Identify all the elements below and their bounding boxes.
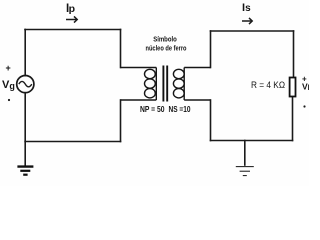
wire left vertical (top corner down to source) bbox=[24, 30, 26, 76]
svg-text:núcleo de ferro: núcleo de ferro bbox=[146, 44, 187, 53]
wire primary-side vertical (coil bottom lead to bottom rail) bbox=[120, 100, 122, 142]
ground (right) bbox=[236, 167, 254, 176]
ground (left) bbox=[17, 167, 33, 175]
svg-text:NS =10: NS =10 bbox=[169, 104, 191, 114]
wire secondary-side vertical (coil top lead up to top-right rail) bbox=[210, 31, 212, 68]
wire top-left horizontal (Vg to primary) bbox=[25, 29, 121, 31]
arrow for Is bbox=[242, 18, 252, 24]
svg-text:R = 4 KΩ: R = 4 KΩ bbox=[251, 80, 285, 91]
svg-text:NP = 50: NP = 50 bbox=[140, 104, 165, 114]
transformer T1: secondary winding bbox=[173, 68, 210, 101]
svg-text:Vg: Vg bbox=[2, 79, 15, 91]
wire secondary-side vertical (coil bottom lead down to rail) bbox=[210, 100, 212, 141]
wire left vertical (source to bottom rail) bbox=[24, 93, 26, 142]
transformer T1: primary winding bbox=[121, 68, 157, 101]
transformer T1: iron core bbox=[163, 66, 167, 102]
AC source Vg bbox=[17, 76, 34, 93]
svg-text:Símbolo: Símbolo bbox=[153, 35, 177, 44]
wire ground stem left bbox=[24, 142, 26, 166]
wire ground stem right bbox=[244, 141, 246, 166]
polarity dot of Vl bbox=[303, 105, 305, 107]
wire right vertical (top corner down to resistor) bbox=[293, 31, 295, 78]
wire bottom-right horizontal rail bbox=[211, 140, 293, 142]
svg-text:Ip: Ip bbox=[66, 3, 75, 15]
polarity dot of Vg bbox=[8, 99, 10, 101]
resistor R bbox=[290, 78, 296, 97]
svg-text:Vl: Vl bbox=[302, 82, 309, 93]
svg-text:+: + bbox=[6, 63, 11, 73]
wire bottom-left horizontal rail bbox=[25, 141, 120, 143]
wire top-right horizontal rail bbox=[211, 30, 294, 32]
arrow for Ip bbox=[66, 16, 77, 22]
wire right vertical (resistor bottom to bottom rail) bbox=[292, 97, 294, 141]
svg-text:Is: Is bbox=[242, 2, 251, 14]
wire primary-side vertical (top corner to coil lead) bbox=[120, 30, 122, 68]
